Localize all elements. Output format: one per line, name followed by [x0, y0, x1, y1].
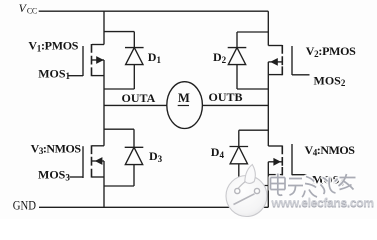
- svg-text:www.elecfans.com: www.elecfans.com: [271, 195, 375, 209]
- svg-text:GND: GND: [13, 198, 36, 212]
- svg-text:D4: D4: [211, 145, 225, 160]
- svg-text:MOS1: MOS1: [38, 66, 70, 81]
- svg-text:MOS2: MOS2: [314, 73, 346, 88]
- svg-text:V1:PMOS: V1:PMOS: [28, 39, 78, 54]
- svg-text:D2: D2: [213, 50, 227, 65]
- svg-text:OUTA: OUTA: [122, 91, 156, 105]
- svg-text:D1: D1: [148, 50, 162, 65]
- svg-text:V3:NMOS: V3:NMOS: [31, 141, 82, 156]
- svg-text:MOS3: MOS3: [38, 168, 70, 183]
- svg-text:M: M: [178, 91, 190, 105]
- svg-text:V4:NMOS: V4:NMOS: [305, 143, 356, 158]
- svg-text:OUTB: OUTB: [209, 90, 243, 104]
- svg-text:V2:PMOS: V2:PMOS: [306, 44, 356, 59]
- svg-text:D3: D3: [149, 149, 163, 164]
- svg-text:CC: CC: [27, 6, 37, 15]
